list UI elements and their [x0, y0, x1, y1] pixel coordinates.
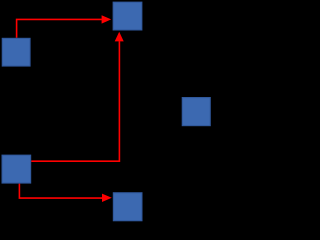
- wire: elbow from bottom of box D right to box E: [19, 184, 102, 199]
- arrowhead into bottom of box B: [115, 32, 124, 42]
- wire: elbow from top of box A right to box B: [17, 19, 102, 37]
- arrowhead into left side of box E: [102, 194, 112, 202]
- arrowhead into left side of box B: [102, 15, 112, 23]
- node D (bottom-left square): [2, 155, 31, 183]
- node C (right square): [182, 98, 210, 126]
- node B (top-right square): [113, 2, 142, 30]
- node A (top-left square): [2, 38, 30, 66]
- node E (bottom-middle square): [113, 193, 142, 221]
- wire: elbow from right of box D up to bottom of box B: [31, 41, 119, 161]
